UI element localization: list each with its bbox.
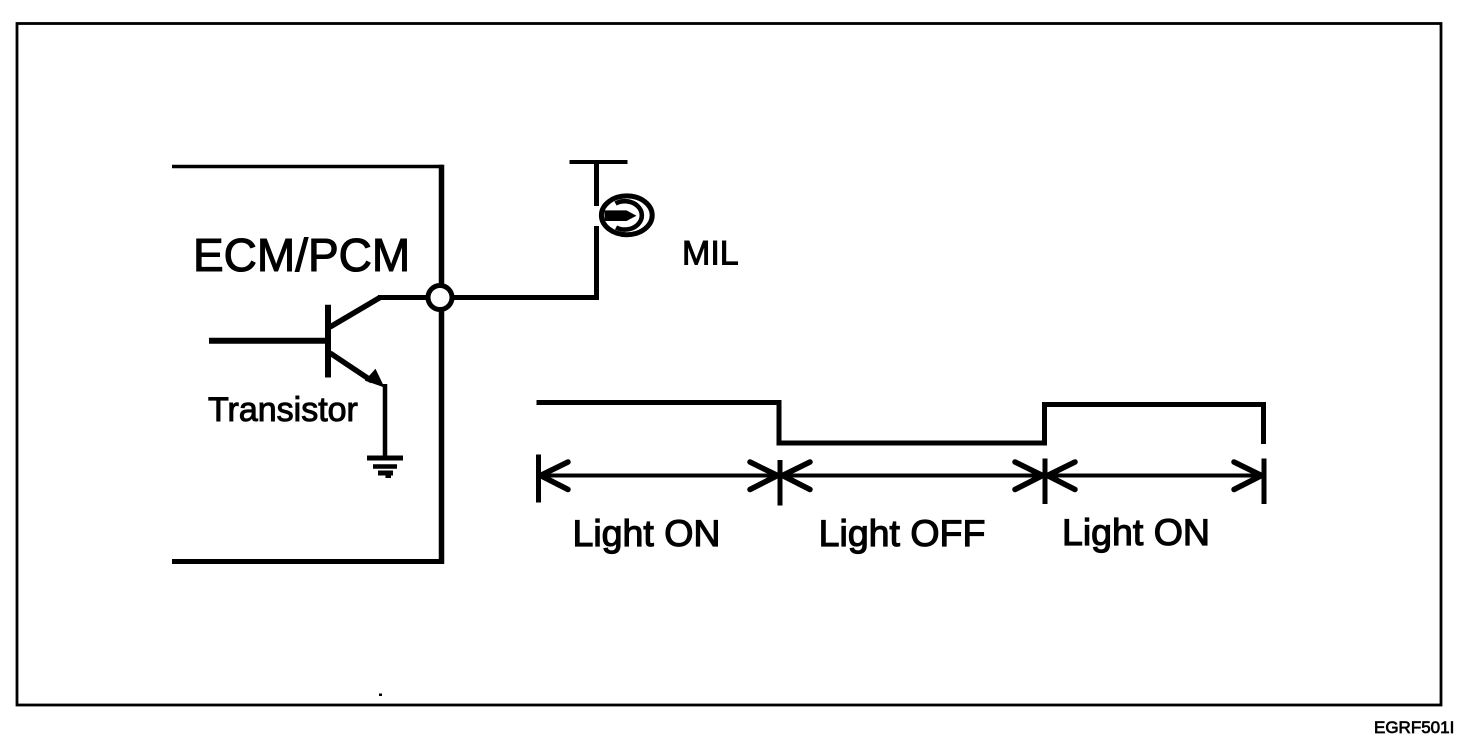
svg-text:Transistor: Transistor (208, 391, 358, 429)
waveform trace (lamp blink pattern) (537, 403, 1264, 445)
wire junction to lamp (452, 226, 599, 298)
arrowhead left (points left) (541, 462, 569, 490)
wire collector to junction (378, 295, 428, 300)
svg-text:ECM/PCM: ECM/PCM (193, 229, 410, 281)
label Light OFF (819, 512, 986, 554)
arrowhead mid-right pair (1015, 462, 1075, 490)
dimension line (539, 474, 1264, 478)
ground (367, 458, 403, 477)
svg-text:Light OFF: Light OFF (819, 512, 986, 554)
ECM/PCM module box (172, 165, 444, 564)
tick mid-left (778, 460, 783, 506)
label Light ON (right) (1062, 511, 1210, 553)
svg-text:Light ON: Light ON (1062, 511, 1210, 553)
label MIL (682, 235, 739, 273)
node junction (open circle) (428, 286, 452, 310)
svg-text:Light ON: Light ON (573, 512, 721, 554)
label Transistor (208, 391, 358, 429)
wire emitter to ground (383, 384, 388, 458)
svg-text:EGRF501I: EGRF501I (1374, 718, 1454, 737)
lamp MIL (bulb) (601, 196, 652, 235)
svg-text:MIL: MIL (682, 235, 739, 273)
arrowhead mid-left pair (750, 462, 810, 490)
transistor Q1 (209, 298, 385, 388)
tick right (1262, 459, 1267, 505)
tick left (536, 455, 541, 503)
arrowhead right (points right) (1234, 462, 1262, 490)
tick mid-right (1043, 459, 1048, 505)
wire lamp to supply (594, 161, 599, 207)
power rail bar (570, 160, 628, 164)
scan speck (379, 694, 382, 697)
figure code EGRF501I (1374, 718, 1454, 737)
label ECM/PCM (193, 229, 410, 281)
label Light ON (left) (573, 512, 721, 554)
